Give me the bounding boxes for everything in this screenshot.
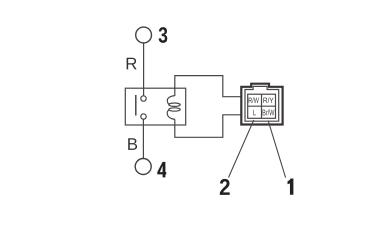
terminal 3 <box>136 27 152 43</box>
relay body outline <box>175 76 241 138</box>
label B <box>128 138 137 150</box>
pin label R/Y <box>263 97 273 103</box>
relay box <box>125 88 185 125</box>
wire B (relay to terminal 4) <box>142 119 144 158</box>
label R <box>127 58 137 70</box>
pin grid <box>248 94 276 118</box>
terminal 4 <box>135 159 151 175</box>
wire R (terminal 3 to relay contact) <box>143 43 145 96</box>
pin label L <box>253 110 256 115</box>
connector outer outline <box>241 84 282 125</box>
connector inner outline <box>245 86 279 121</box>
pin label R/W <box>249 97 259 103</box>
switch armature <box>135 95 137 116</box>
label 2 <box>220 179 230 195</box>
relay coil <box>167 96 180 120</box>
label 4 <box>157 162 166 178</box>
leader to 1 <box>268 121 286 178</box>
label 3 <box>159 27 168 43</box>
label 1 <box>288 179 294 195</box>
pin label Br/W <box>263 109 275 115</box>
leader to 2 <box>229 120 254 178</box>
contact bottom <box>141 114 146 119</box>
contact top <box>141 96 146 101</box>
